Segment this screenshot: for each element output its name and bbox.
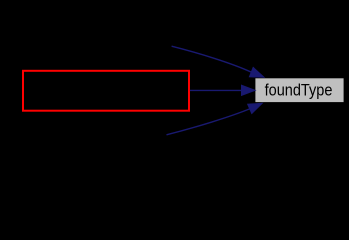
edge 2 (middle) wire — [190, 89, 242, 91]
edge 3 arrowhead — [248, 103, 263, 113]
edge 3 (bottom) wire — [167, 109, 250, 135]
node: current node (red border, black fill) — [23, 71, 189, 111]
node foundType (grey box) — [255, 78, 343, 102]
edge 1 arrowhead — [249, 67, 264, 77]
edge 2 arrowhead — [241, 85, 255, 95]
edge 1 (top) wire — [172, 46, 252, 72]
svg-text:foundType: foundType — [265, 81, 333, 100]
